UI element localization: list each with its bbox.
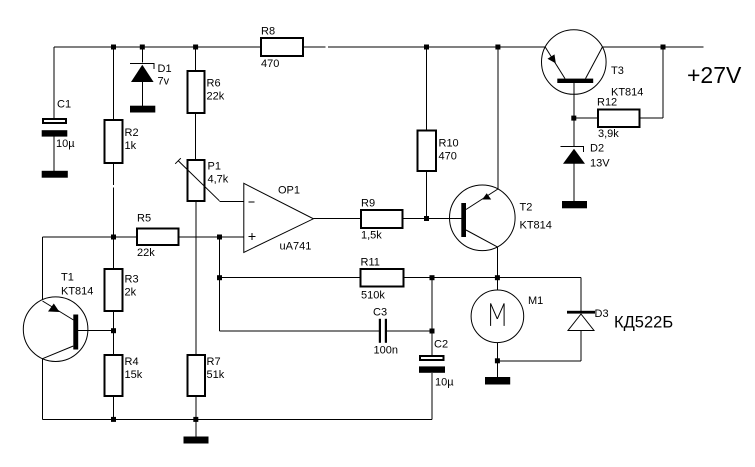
capacitor C1 (42, 119, 68, 136)
capacitor C2 (419, 356, 445, 373)
svg-text:510k: 510k (361, 290, 385, 302)
ground D2 (562, 201, 587, 208)
wire R3 top (113, 237, 115, 269)
op-amp OP1 (244, 183, 314, 252)
svg-text:C1: C1 (57, 99, 71, 111)
wire C3 left (220, 330, 380, 332)
svg-text:1k: 1k (125, 140, 137, 152)
wire T1 base (78, 330, 113, 332)
svg-text:C2: C2 (434, 339, 448, 351)
svg-text:22k: 22k (207, 91, 225, 103)
ground D1 (130, 106, 155, 113)
node top rail T2 (495, 45, 500, 50)
svg-text:R4: R4 (125, 356, 139, 368)
wire R7 bottom (195, 396, 197, 419)
wire C2 branch lower (431, 331, 433, 355)
wire T2 emitter vertical (496, 247, 498, 278)
wire left vertical upper (42, 237, 44, 300)
svg-text:T2: T2 (520, 202, 533, 214)
resistor R7 (188, 355, 206, 396)
wire top rail left segment (54, 46, 325, 48)
wire plus input vertical (219, 237, 221, 331)
wire input left of R5 (43, 236, 138, 238)
svg-text:КД522Б: КД522Б (614, 314, 673, 332)
svg-text:KT814: KT814 (520, 220, 552, 232)
wire R6 top vertical (195, 47, 197, 71)
svg-text:470: 470 (261, 58, 279, 70)
zener diode D2 (561, 147, 586, 164)
resistor R8 (261, 38, 303, 56)
svg-text:13V: 13V (590, 158, 610, 170)
transistor T2 (450, 185, 516, 251)
wire R12 riser (662, 47, 664, 118)
resistor R9 (361, 210, 403, 228)
wire bottom rail (43, 418, 433, 420)
resistor R5 (137, 229, 179, 246)
zener diode D1 (130, 63, 154, 82)
svg-text:470: 470 (439, 151, 457, 163)
svg-text:+27V: +27V (687, 62, 742, 88)
node R11 right (430, 275, 435, 280)
node top rail R10 (424, 45, 429, 50)
svg-text:C3: C3 (373, 307, 387, 319)
wire P1 wiper to op-amp minus input (220, 201, 244, 203)
node T1 base (111, 328, 116, 333)
wire T3 base stem upper (573, 83, 575, 118)
wire motor top (496, 278, 498, 290)
wire R10 bottom vertical (426, 171, 428, 219)
svg-text:T1: T1 (61, 272, 74, 284)
node motor bottom (495, 358, 500, 363)
wire R11 left (220, 277, 361, 279)
node top rail R6 (193, 45, 198, 50)
svg-text:uA741: uA741 (280, 241, 312, 253)
wire C1 top vertical (53, 47, 55, 118)
svg-text:10µ: 10µ (56, 138, 75, 150)
svg-text:D3: D3 (595, 308, 609, 320)
node T3 R12 D2 (571, 116, 576, 121)
wire P1 to R7 vertical (195, 201, 197, 355)
svg-text:R9: R9 (361, 198, 375, 210)
resistor R2 (105, 120, 123, 163)
wire C2 branch upper (431, 278, 433, 331)
node bottom rail R7 (193, 417, 198, 422)
node input R2 (111, 235, 116, 240)
svg-text:P1: P1 (208, 161, 221, 173)
wire motor bottom (496, 343, 498, 361)
svg-text:4,7k: 4,7k (208, 174, 229, 186)
svg-text:R5: R5 (137, 213, 151, 225)
node top rail D1 (140, 45, 145, 50)
svg-text:R8: R8 (261, 26, 275, 38)
node motor rail T2 (495, 275, 500, 280)
svg-text:15k: 15k (125, 369, 143, 381)
wire op-amp output to R9 (313, 218, 361, 220)
svg-text:10µ: 10µ (435, 377, 454, 389)
svg-text:2k: 2k (125, 287, 137, 299)
ground M1 (485, 377, 510, 385)
wire R2 bottom vertical lower part (113, 188, 115, 238)
node top rail R12 (661, 45, 666, 50)
wire top rail right segment (602, 46, 703, 48)
potentiometer P1 (175, 158, 219, 201)
svg-text:7v: 7v (158, 76, 170, 88)
wire motor rail (432, 277, 581, 279)
svg-text:R10: R10 (439, 138, 459, 150)
svg-text:T3: T3 (611, 65, 624, 77)
wire D2 bottom vertical (573, 164, 575, 201)
wire R9 to T2 base (403, 218, 462, 220)
resistor R11 (361, 269, 404, 287)
svg-text:R12: R12 (597, 97, 617, 109)
transistor T1 (23, 297, 88, 362)
resistor R6 (187, 71, 204, 113)
wire R11 right (404, 277, 433, 279)
resistor R3 (105, 269, 123, 311)
svg-text:OP1: OP1 (278, 185, 300, 197)
svg-text:D2: D2 (590, 143, 604, 155)
wire R5 to op-amp plus input (179, 236, 244, 238)
wire D3 bottom vertical (580, 331, 582, 361)
node top rail R2 (111, 45, 116, 50)
svg-text:R3: R3 (125, 274, 139, 286)
wire R4 bottom (113, 396, 115, 419)
wire left vertical lower (42, 359, 44, 420)
resistor R4 (105, 355, 123, 396)
motor M1 (471, 290, 524, 343)
wire R6 to P1 (195, 113, 197, 160)
ground C1 (42, 171, 68, 178)
svg-text:1,5k: 1,5k (361, 230, 382, 242)
wire motor ground stub (496, 361, 498, 377)
svg-text:51k: 51k (207, 369, 225, 381)
node R11 left (217, 275, 222, 280)
node bottom rail R4 (111, 417, 116, 422)
svg-text:R2: R2 (125, 127, 139, 139)
wire C3 right (387, 330, 432, 332)
node T2 base R10 (424, 216, 429, 221)
resistor R10 (418, 130, 437, 171)
svg-text:22k: 22k (137, 247, 155, 259)
wire R12 right (640, 117, 664, 119)
wire R2 top vertical (113, 47, 115, 120)
wire D1 bottom vertical (141, 82, 143, 106)
wire D3 top vertical (580, 278, 582, 311)
svg-text:R11: R11 (361, 257, 380, 269)
node C3 C2 (430, 329, 435, 334)
node input op-amp (217, 235, 222, 240)
wire R2 bottom vertical upper part (113, 163, 115, 185)
wire C1 lower vertical (53, 137, 55, 171)
capacitor C3 (379, 319, 387, 343)
svg-text:R7: R7 (207, 356, 221, 368)
ground bottom (184, 437, 209, 444)
svg-text:M1: M1 (528, 295, 543, 307)
resistor R12 (598, 110, 640, 128)
wire T2 collector vertical (497, 47, 499, 189)
svg-text:3,9k: 3,9k (598, 128, 619, 140)
svg-text:100n: 100n (374, 345, 398, 357)
wire D3 to motor bottom (497, 360, 581, 362)
wire top rail middle segment (328, 46, 545, 48)
svg-text:R6: R6 (207, 78, 221, 90)
wire D1 top vertical (141, 47, 143, 62)
wire T3 stem to D2 (573, 118, 575, 146)
wire R12 left (574, 117, 598, 119)
transistor T3 (542, 30, 607, 95)
wire ground stub bottom (195, 419, 197, 436)
wire C2 bottom vertical (431, 373, 433, 420)
wire R3 to R4 (113, 311, 115, 355)
svg-text:KT814: KT814 (61, 286, 93, 298)
diode D3 (567, 311, 595, 331)
wire R10 top vertical (426, 47, 428, 130)
svg-text:D1: D1 (158, 63, 172, 75)
